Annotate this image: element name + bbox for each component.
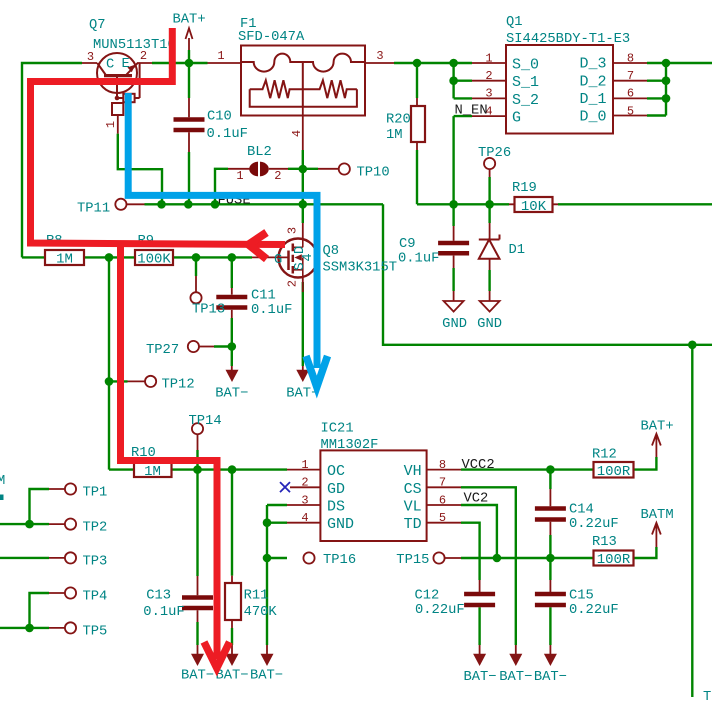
svg-text:Q8: Q8 [323,244,340,259]
svg-text:0.22uF: 0.22uF [569,517,619,532]
svg-text:470K: 470K [244,605,278,620]
svg-text:VC2: VC2 [464,492,489,507]
svg-text:TP12: TP12 [162,378,195,393]
svg-text:C14: C14 [569,503,594,518]
svg-text:BL2: BL2 [247,145,272,160]
svg-text:D_0: D_0 [579,109,606,126]
svg-text:TP16: TP16 [323,553,356,568]
svg-text:3: 3 [485,87,492,101]
svg-text:C11: C11 [251,289,276,304]
svg-text:2: 2 [286,280,300,287]
svg-text:BAT−: BAT− [534,670,567,685]
svg-text:GND: GND [477,317,502,332]
svg-text:C15: C15 [569,589,594,604]
svg-text:TP15: TP15 [396,553,429,568]
svg-text:R19: R19 [512,181,537,196]
svg-text:TP11: TP11 [77,202,110,217]
svg-text:3: 3 [286,227,300,234]
svg-text:T: T [703,690,711,701]
svg-text:MM1302F: MM1302F [321,438,379,453]
svg-text:S_1: S_1 [512,74,539,91]
svg-text:1: 1 [301,458,308,472]
svg-text:TP27: TP27 [146,343,179,358]
svg-text:DS: DS [327,499,345,516]
svg-text:1: 1 [236,169,243,183]
svg-text:D: D [293,246,308,254]
svg-text:100K: 100K [137,252,171,268]
svg-text:C12: C12 [415,589,440,604]
svg-text:8: 8 [439,458,446,472]
svg-text:TP13: TP13 [192,303,225,318]
svg-text:D_3: D_3 [579,56,606,73]
svg-text:M: M [0,474,5,489]
svg-text:TP2: TP2 [83,521,108,536]
svg-text:BAT+: BAT+ [173,13,206,28]
svg-text:100R: 100R [597,464,631,480]
svg-text:BAT+: BAT+ [641,420,674,435]
svg-text:BAT−: BAT− [463,670,496,685]
svg-text:0.1uF: 0.1uF [143,605,184,620]
svg-text:2: 2 [301,476,308,490]
svg-text:TP5: TP5 [83,624,108,639]
svg-text:SSM3K315T: SSM3K315T [323,261,398,276]
svg-text:C10: C10 [207,110,232,125]
svg-text:3: 3 [376,49,383,63]
svg-text:2: 2 [274,169,281,183]
svg-text:IC21: IC21 [321,422,354,437]
svg-text:VH: VH [404,463,422,480]
svg-text:TP10: TP10 [357,166,390,181]
svg-text:0.1uF: 0.1uF [398,252,439,267]
svg-text:1: 1 [104,121,118,128]
svg-text:BAT−: BAT− [215,669,248,684]
svg-text:R12: R12 [592,448,617,463]
svg-text:0.1uF: 0.1uF [207,127,248,142]
svg-text:GD: GD [327,481,345,498]
svg-text:VL: VL [404,499,422,516]
svg-text:0.22uF: 0.22uF [415,603,465,618]
svg-text:TP1: TP1 [83,486,108,501]
svg-text:Q1: Q1 [506,15,523,30]
svg-text:6: 6 [439,493,446,507]
svg-text:E: E [122,57,130,72]
svg-text:S: S [293,262,308,270]
svg-text:OC: OC [327,463,345,480]
svg-text:BATM: BATM [641,508,674,523]
svg-text:5: 5 [439,511,446,525]
svg-text:TP14: TP14 [189,414,222,429]
svg-text:2: 2 [140,49,147,63]
svg-text:R13: R13 [592,535,617,550]
svg-text:1M: 1M [144,464,161,480]
svg-text:N_EN: N_EN [455,104,488,119]
svg-text:0.22uF: 0.22uF [569,603,619,618]
svg-text:BAT−: BAT− [250,669,283,684]
svg-text:TP3: TP3 [83,554,108,569]
svg-text:6: 6 [627,87,634,101]
svg-text:1M: 1M [56,252,73,268]
svg-text:10K: 10K [521,199,547,215]
svg-text:C: C [106,58,114,73]
svg-text:G: G [274,253,282,268]
svg-text:MUN5113T1G: MUN5113T1G [93,38,176,53]
svg-text:R11: R11 [244,589,269,604]
svg-text:1M: 1M [386,128,403,143]
svg-text:5: 5 [627,104,634,118]
svg-text:R20: R20 [386,113,411,128]
svg-text:100R: 100R [597,552,631,568]
svg-text:SFD-047A: SFD-047A [238,30,305,45]
svg-text:TD: TD [404,516,422,533]
svg-text:G: G [512,110,521,127]
svg-text:1: 1 [485,51,492,65]
svg-text:3: 3 [301,493,308,507]
svg-text:2: 2 [485,69,492,83]
svg-text:TP26: TP26 [478,146,511,161]
svg-text:VCC2: VCC2 [462,458,495,473]
svg-text:D_2: D_2 [579,73,606,90]
svg-text:CS: CS [404,481,422,498]
svg-text:BAT−: BAT− [499,670,532,685]
svg-text:C9: C9 [399,237,416,252]
svg-text:GND: GND [442,317,467,332]
svg-text:S_2: S_2 [512,92,539,109]
svg-text:D1: D1 [509,243,526,258]
svg-text:1: 1 [217,49,224,63]
svg-text:8: 8 [627,51,634,65]
svg-text:TP4: TP4 [83,590,108,605]
svg-text:7: 7 [627,69,634,83]
svg-text:3: 3 [87,50,94,64]
svg-text:7: 7 [439,476,446,490]
svg-text:D_1: D_1 [579,91,606,108]
svg-text:Q7: Q7 [89,18,106,33]
svg-text:BAT−: BAT− [215,387,248,402]
svg-text:S_0: S_0 [512,57,539,74]
svg-text:C13: C13 [146,589,171,604]
svg-text:4: 4 [301,511,308,525]
svg-text:4: 4 [290,130,304,137]
svg-text:SI4425BDY-T1-E3: SI4425BDY-T1-E3 [506,32,630,47]
svg-text:BAT−: BAT− [181,669,214,684]
svg-text:0.1uF: 0.1uF [251,303,292,318]
svg-text:GND: GND [327,516,354,533]
